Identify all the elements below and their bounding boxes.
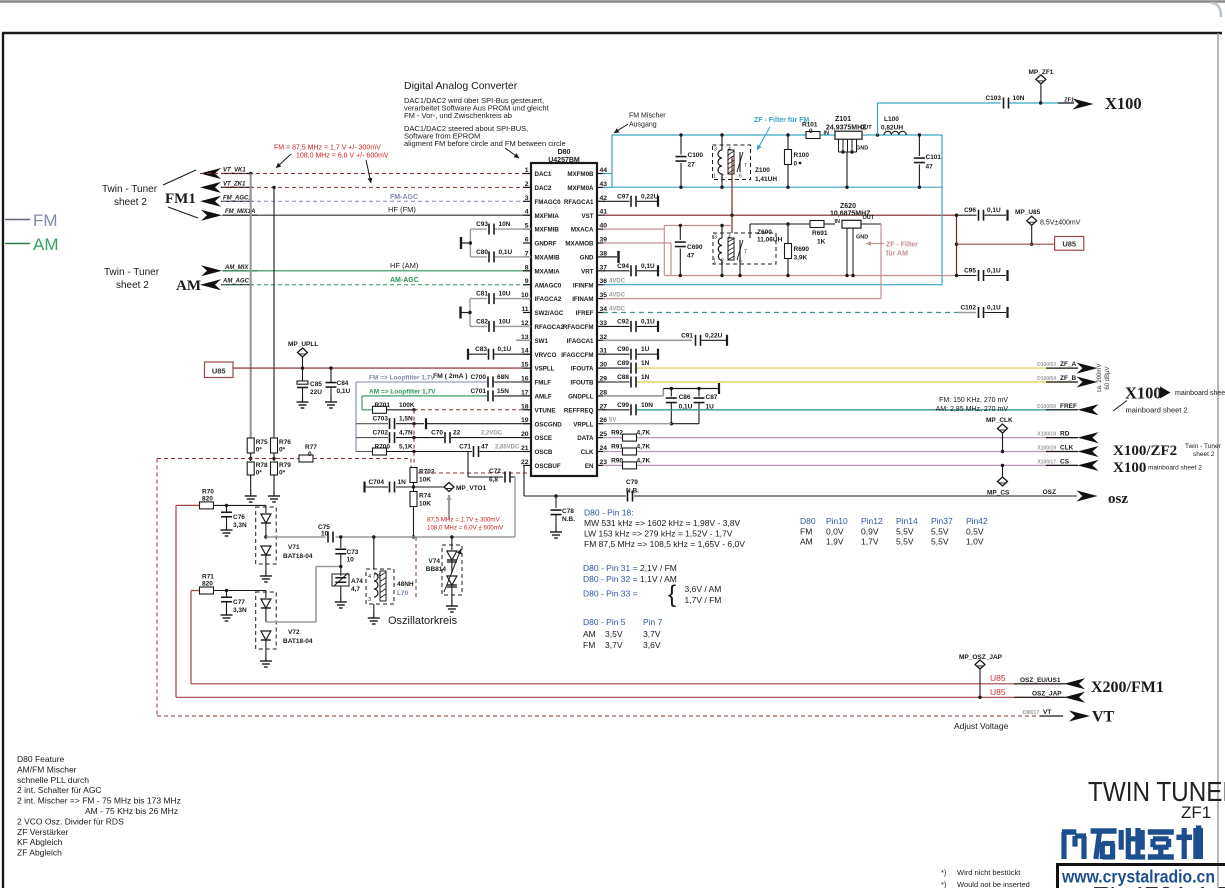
svg-text:ZF Abgleich: ZF Abgleich bbox=[17, 848, 62, 858]
svg-text:1N: 1N bbox=[641, 360, 650, 367]
svg-text:R70: R70 bbox=[202, 489, 214, 496]
svg-text:C690: C690 bbox=[687, 244, 703, 251]
svg-text:R78: R78 bbox=[256, 462, 268, 469]
svg-text:0,1U: 0,1U bbox=[641, 318, 655, 325]
svg-text:4VDC: 4VDC bbox=[609, 293, 626, 299]
svg-text:100K: 100K bbox=[399, 402, 415, 409]
svg-text:18: 18 bbox=[521, 403, 529, 410]
svg-text:C84: C84 bbox=[337, 380, 349, 387]
svg-text:R690: R690 bbox=[794, 246, 810, 253]
svg-text:0,1U: 0,1U bbox=[987, 305, 1001, 312]
svg-text:EN: EN bbox=[585, 463, 594, 470]
svg-text:HF (AM): HF (AM) bbox=[390, 261, 419, 270]
svg-text:8,5V±400mV: 8,5V±400mV bbox=[1040, 220, 1081, 227]
svg-text:2 int. Schalter für AGC: 2 int. Schalter für AGC bbox=[17, 785, 102, 795]
svg-text:C95: C95 bbox=[964, 268, 976, 275]
svg-text:15N: 15N bbox=[497, 388, 509, 395]
svg-text:Twin - Tuner: Twin - Tuner bbox=[104, 267, 160, 278]
svg-text:mainboard sheet 2: mainboard sheet 2 bbox=[1175, 390, 1225, 397]
svg-text:GNDPLL: GNDPLL bbox=[568, 394, 594, 401]
svg-text:AM: AM bbox=[583, 629, 596, 639]
svg-text:C70: C70 bbox=[431, 430, 443, 437]
svg-text:SW1: SW1 bbox=[535, 338, 549, 345]
svg-text:0: 0 bbox=[809, 128, 813, 135]
svg-text:C94: C94 bbox=[617, 263, 629, 270]
svg-text:10K: 10K bbox=[419, 501, 431, 508]
svg-text:OSCGND: OSCGND bbox=[535, 421, 563, 428]
svg-text:3,6V / AM: 3,6V / AM bbox=[685, 584, 722, 594]
svg-text:OUT: OUT bbox=[860, 125, 872, 131]
svg-text:FM - Vor-, und Zwischenkreis a: FM - Vor-, und Zwischenkreis ab bbox=[404, 111, 512, 120]
svg-text:MP_UPLL: MP_UPLL bbox=[288, 341, 318, 348]
svg-text:*): *) bbox=[941, 868, 947, 877]
svg-text:C83: C83 bbox=[475, 346, 487, 353]
svg-text:3,6V: 3,6V bbox=[643, 640, 661, 650]
svg-text:BAT18-04: BAT18-04 bbox=[283, 638, 313, 645]
svg-text:AM-AGC: AM-AGC bbox=[390, 277, 419, 284]
svg-text:Twin - Tuner: Twin - Tuner bbox=[102, 184, 158, 195]
svg-text:aligment FM before circle and: aligment FM before circle and FM between… bbox=[404, 139, 566, 148]
svg-text:MW 531 kHz => 1602 kHz = 1,98V: MW 531 kHz => 1602 kHz = 1,98V - 3,8V bbox=[584, 518, 740, 528]
svg-text:IFOUTA: IFOUTA bbox=[571, 366, 594, 373]
svg-text:Ausgang: Ausgang bbox=[629, 122, 657, 129]
svg-text:X100: X100 bbox=[1113, 460, 1146, 476]
svg-text:FM = 87,5 MHz = 1,7 V +/- 300m: FM = 87,5 MHz = 1,7 V +/- 300mV bbox=[274, 145, 381, 152]
svg-text:10N: 10N bbox=[641, 402, 653, 409]
svg-text:BB814: BB814 bbox=[426, 566, 447, 573]
svg-text:Digital Analog Converter: Digital Analog Converter bbox=[404, 80, 518, 92]
svg-text:X100/18: X100/18 bbox=[1037, 432, 1056, 438]
svg-text:L70: L70 bbox=[397, 590, 409, 597]
svg-text:C89: C89 bbox=[617, 360, 629, 367]
svg-text:FM: FM bbox=[33, 211, 58, 230]
svg-text:2: 2 bbox=[721, 174, 724, 180]
svg-text:MP_U85: MP_U85 bbox=[1015, 209, 1041, 216]
svg-text:IFREF: IFREF bbox=[576, 310, 594, 317]
svg-text:für AM: für AM bbox=[886, 251, 908, 258]
svg-text:10U: 10U bbox=[499, 291, 511, 298]
svg-text:Z620: Z620 bbox=[840, 203, 856, 210]
svg-text:Pin42: Pin42 bbox=[966, 516, 988, 526]
svg-text:5,5V: 5,5V bbox=[931, 537, 949, 547]
svg-text:0,0V: 0,0V bbox=[826, 527, 844, 537]
svg-text:D80: D80 bbox=[800, 516, 816, 526]
svg-text:{: { bbox=[668, 581, 676, 608]
svg-text:7: 7 bbox=[744, 249, 747, 255]
svg-text:3: 3 bbox=[714, 147, 717, 153]
svg-text:mainboard sheet 2: mainboard sheet 2 bbox=[1148, 465, 1202, 472]
svg-text:8: 8 bbox=[525, 264, 529, 271]
svg-text:D80 - Pin 31 =: D80 - Pin 31 = bbox=[583, 563, 638, 573]
svg-text:C73: C73 bbox=[347, 549, 359, 556]
svg-text:VT_ZK1: VT_ZK1 bbox=[223, 181, 246, 187]
svg-text:AM: 2,85 MHz, 270 mV: AM: 2,85 MHz, 270 mV bbox=[936, 406, 1009, 413]
svg-text:GNDRF: GNDRF bbox=[535, 241, 557, 248]
svg-text:60 dBµV: 60 dBµV bbox=[1105, 366, 1111, 389]
svg-text:Pin12: Pin12 bbox=[861, 516, 883, 526]
svg-text:4VDC: 4VDC bbox=[609, 279, 626, 285]
svg-text:U85: U85 bbox=[1062, 240, 1076, 249]
svg-text:1,41UH: 1,41UH bbox=[755, 176, 777, 183]
svg-text:Z101: Z101 bbox=[835, 116, 851, 123]
svg-text:5,5V: 5,5V bbox=[896, 527, 914, 537]
svg-text:VRT: VRT bbox=[581, 268, 594, 275]
svg-text:R76: R76 bbox=[279, 439, 291, 446]
svg-text:108,0 MHz = 6,0V ± 600mV: 108,0 MHz = 6,0V ± 600mV bbox=[427, 525, 504, 532]
svg-text:FM: FM bbox=[583, 640, 595, 650]
svg-text:C80: C80 bbox=[476, 249, 488, 256]
svg-text:ca. 200mV: ca. 200mV bbox=[1097, 364, 1103, 393]
svg-text:C91: C91 bbox=[681, 332, 693, 339]
svg-text:OSZ_EU/US1: OSZ_EU/US1 bbox=[1020, 677, 1061, 684]
svg-text:AM => Loopfilter 1,7V: AM => Loopfilter 1,7V bbox=[369, 388, 436, 395]
svg-text:1,7V / FM: 1,7V / FM bbox=[685, 595, 722, 605]
svg-text:C704: C704 bbox=[368, 479, 384, 486]
svg-text:0*: 0* bbox=[279, 447, 286, 454]
svg-text:3,7V: 3,7V bbox=[605, 640, 623, 650]
svg-text:1N: 1N bbox=[641, 374, 650, 381]
svg-text:C93: C93 bbox=[476, 221, 488, 228]
svg-text:0,1U: 0,1U bbox=[337, 388, 351, 395]
svg-text:R71: R71 bbox=[202, 574, 214, 581]
svg-text:FM: FM bbox=[800, 527, 812, 537]
svg-text:0*: 0* bbox=[279, 470, 286, 477]
svg-text:MXFM0B: MXFM0B bbox=[567, 171, 594, 178]
svg-text:X200/FM1: X200/FM1 bbox=[1091, 679, 1164, 696]
svg-text:3: 3 bbox=[525, 195, 529, 202]
svg-text:11: 11 bbox=[521, 306, 528, 313]
svg-text:IFAGCA1: IFAGCA1 bbox=[567, 338, 594, 345]
svg-text:Z100: Z100 bbox=[755, 167, 770, 174]
svg-text:C86: C86 bbox=[679, 394, 691, 401]
svg-text:MXFMIA: MXFMIA bbox=[535, 213, 560, 220]
svg-text:11,06UH: 11,06UH bbox=[757, 237, 783, 244]
svg-text:C76: C76 bbox=[233, 514, 245, 521]
svg-text:D100/54: D100/54 bbox=[1037, 376, 1056, 382]
svg-text:C82: C82 bbox=[476, 318, 488, 325]
svg-text:27: 27 bbox=[688, 162, 696, 169]
svg-text:820: 820 bbox=[202, 496, 213, 503]
svg-text:C101: C101 bbox=[926, 154, 942, 161]
svg-text:D80 - Pin 32 =: D80 - Pin 32 = bbox=[583, 574, 638, 584]
svg-text:DATA: DATA bbox=[577, 435, 594, 442]
svg-text:1,9V: 1,9V bbox=[826, 537, 844, 547]
svg-text:A74: A74 bbox=[351, 578, 363, 585]
svg-text:C90: C90 bbox=[617, 346, 629, 353]
svg-text:RFAGCA2: RFAGCA2 bbox=[535, 324, 565, 331]
svg-text:4,7K: 4,7K bbox=[637, 444, 651, 451]
svg-text:6: 6 bbox=[525, 237, 529, 244]
svg-text:CLK: CLK bbox=[1060, 445, 1074, 452]
svg-text:mainboard sheet 2: mainboard sheet 2 bbox=[1126, 406, 1188, 415]
svg-text:10U: 10U bbox=[499, 318, 511, 325]
svg-text:820: 820 bbox=[202, 581, 213, 588]
svg-text:RFAGCA1: RFAGCA1 bbox=[564, 199, 594, 206]
svg-text:OSZ: OSZ bbox=[1043, 489, 1056, 496]
svg-text:VSPLL: VSPLL bbox=[535, 366, 555, 373]
svg-text:7: 7 bbox=[744, 163, 747, 169]
svg-text:C700: C700 bbox=[470, 374, 486, 381]
svg-text:C97: C97 bbox=[617, 193, 629, 200]
svg-text:1,0V: 1,0V bbox=[966, 537, 984, 547]
svg-text:ZF_B: ZF_B bbox=[1060, 375, 1077, 382]
svg-text:9: 9 bbox=[525, 278, 529, 285]
svg-text:5,5V: 5,5V bbox=[931, 527, 949, 537]
svg-text:MXAMIB: MXAMIB bbox=[535, 255, 561, 262]
svg-text:GND: GND bbox=[856, 146, 868, 152]
svg-text:GND: GND bbox=[580, 255, 594, 262]
svg-text:2,1V / FM: 2,1V / FM bbox=[640, 563, 677, 573]
svg-text:21: 21 bbox=[521, 445, 529, 452]
svg-text:R77: R77 bbox=[305, 444, 317, 451]
svg-text:15: 15 bbox=[521, 362, 529, 369]
svg-text:0*: 0* bbox=[256, 470, 263, 477]
svg-text:C79: C79 bbox=[626, 479, 638, 486]
svg-text:OSCBUF: OSCBUF bbox=[535, 463, 561, 470]
svg-text:10N: 10N bbox=[1013, 95, 1025, 102]
svg-text:HF (FM): HF (FM) bbox=[388, 205, 416, 214]
svg-text:R90: R90 bbox=[611, 457, 623, 464]
svg-text:VRPLL: VRPLL bbox=[573, 421, 594, 428]
svg-text:10: 10 bbox=[321, 531, 329, 538]
svg-text:U85: U85 bbox=[990, 687, 1006, 697]
svg-text:22: 22 bbox=[453, 430, 461, 437]
svg-text:0,1U: 0,1U bbox=[499, 249, 513, 256]
svg-text:MXFM0A: MXFM0A bbox=[567, 185, 594, 192]
svg-text:Would not be inserted: Would not be inserted bbox=[957, 880, 1030, 888]
svg-text:RFAGCFM: RFAGCFM bbox=[563, 324, 594, 331]
svg-text:C71: C71 bbox=[459, 444, 471, 451]
svg-text:3,3N: 3,3N bbox=[233, 607, 247, 614]
svg-text:22U: 22U bbox=[310, 389, 322, 396]
svg-text:2 int. Mischer => FM - 75 MHz: 2 int. Mischer => FM - 75 MHz bis 173 MH… bbox=[17, 796, 181, 806]
svg-text:Pin14: Pin14 bbox=[896, 516, 918, 526]
svg-text:OUT: OUT bbox=[863, 215, 875, 221]
svg-text:0,1U: 0,1U bbox=[987, 207, 1001, 214]
svg-text:6,8: 6,8 bbox=[489, 477, 498, 484]
svg-text:1: 1 bbox=[713, 174, 716, 180]
svg-text:20: 20 bbox=[521, 431, 529, 438]
svg-text:1N: 1N bbox=[398, 479, 407, 486]
svg-text:47: 47 bbox=[687, 253, 695, 260]
svg-text:0: 0 bbox=[794, 161, 798, 168]
svg-text:R74: R74 bbox=[419, 493, 431, 500]
svg-text:Pin 7: Pin 7 bbox=[643, 617, 663, 627]
svg-text:osz: osz bbox=[1108, 491, 1128, 507]
svg-text:U4257BM: U4257BM bbox=[548, 157, 580, 164]
svg-text:1,5N: 1,5N bbox=[399, 416, 413, 423]
svg-text:X100/ZF2: X100/ZF2 bbox=[1113, 443, 1177, 459]
svg-text:X100: X100 bbox=[1105, 94, 1142, 113]
svg-text:C702: C702 bbox=[372, 430, 388, 437]
svg-text:5,1K: 5,1K bbox=[399, 444, 413, 451]
svg-text:DAC2: DAC2 bbox=[535, 185, 552, 192]
svg-text:VT: VT bbox=[1092, 709, 1115, 726]
svg-text:D90/17: D90/17 bbox=[1023, 710, 1039, 716]
svg-text:MXAMIA: MXAMIA bbox=[535, 268, 561, 275]
svg-text:ZF - Filter: ZF - Filter bbox=[886, 242, 918, 249]
svg-text:C96: C96 bbox=[964, 207, 976, 214]
svg-text:FM-AGC: FM-AGC bbox=[390, 194, 418, 201]
svg-text:R75: R75 bbox=[256, 439, 268, 446]
svg-text:R92: R92 bbox=[611, 430, 623, 437]
svg-text:VST: VST bbox=[581, 213, 593, 220]
svg-text:sheet 2: sheet 2 bbox=[114, 197, 147, 208]
svg-text:5V: 5V bbox=[609, 418, 616, 424]
svg-text:0,82UH: 0,82UH bbox=[881, 125, 903, 132]
svg-text:0,1U: 0,1U bbox=[498, 346, 512, 353]
svg-text:D80 - Pin 18:: D80 - Pin 18: bbox=[584, 508, 634, 518]
svg-text:DAC1: DAC1 bbox=[535, 171, 552, 178]
svg-text:R702: R702 bbox=[419, 469, 435, 476]
svg-text:V74: V74 bbox=[428, 558, 440, 565]
svg-text:D80: D80 bbox=[558, 149, 571, 156]
svg-text:FM: 150 KHz, 270 mV: FM: 150 KHz, 270 mV bbox=[939, 397, 1008, 404]
svg-text:0: 0 bbox=[308, 451, 312, 458]
svg-text:R100: R100 bbox=[794, 152, 810, 159]
svg-text:4: 4 bbox=[728, 147, 731, 153]
svg-text:AMLF: AMLF bbox=[535, 394, 552, 401]
svg-text:KF Abgleich: KF Abgleich bbox=[17, 837, 63, 847]
svg-text:C77: C77 bbox=[233, 599, 245, 606]
svg-text:V71: V71 bbox=[288, 544, 300, 551]
svg-text:AM: AM bbox=[33, 235, 59, 254]
svg-text:10: 10 bbox=[347, 557, 355, 564]
svg-text:U85: U85 bbox=[990, 673, 1006, 683]
svg-text:C701: C701 bbox=[470, 388, 486, 395]
svg-text:U85: U85 bbox=[212, 366, 226, 375]
svg-text:D80 - Pin 5: D80 - Pin 5 bbox=[583, 617, 626, 627]
svg-text:C102: C102 bbox=[960, 305, 976, 312]
svg-text:0,1U: 0,1U bbox=[641, 263, 655, 270]
svg-text:R701: R701 bbox=[374, 402, 390, 409]
svg-text:3,5V: 3,5V bbox=[605, 629, 623, 639]
svg-text:X100/17: X100/17 bbox=[1037, 459, 1056, 465]
svg-text:4: 4 bbox=[728, 235, 731, 241]
svg-text:3,9K: 3,9K bbox=[794, 255, 808, 262]
svg-text:C99: C99 bbox=[617, 402, 629, 409]
svg-text:MXAMOB: MXAMOB bbox=[565, 241, 594, 248]
svg-text:GND: GND bbox=[856, 235, 868, 241]
svg-text:10K: 10K bbox=[419, 477, 431, 484]
svg-text:C78: C78 bbox=[562, 508, 574, 515]
svg-text:RD: RD bbox=[1060, 431, 1070, 438]
svg-text:CLK: CLK bbox=[581, 449, 594, 456]
svg-text:3,7V: 3,7V bbox=[643, 629, 661, 639]
svg-text:FM => Loopfilter 1,7V: FM => Loopfilter 1,7V bbox=[369, 375, 435, 382]
svg-text:R700: R700 bbox=[374, 444, 390, 451]
svg-text:0,1U: 0,1U bbox=[987, 268, 1001, 275]
svg-text:R91: R91 bbox=[611, 444, 623, 451]
svg-text:Oszillatorkreis: Oszillatorkreis bbox=[388, 615, 458, 627]
svg-text:Pin10: Pin10 bbox=[826, 516, 848, 526]
svg-text:L100: L100 bbox=[884, 116, 899, 123]
svg-text:48NH: 48NH bbox=[397, 581, 414, 588]
svg-text:2: 2 bbox=[525, 181, 529, 188]
svg-text:10N: 10N bbox=[499, 221, 511, 228]
svg-text:EL 4791 1 50: EL 4791 1 50 bbox=[1092, 881, 1225, 888]
svg-text:2 VCO Osz. Divider für RDS: 2 VCO Osz. Divider für RDS bbox=[17, 816, 124, 826]
svg-text:5,5V: 5,5V bbox=[896, 537, 914, 547]
svg-text:V72: V72 bbox=[288, 629, 300, 636]
svg-text:X100/19: X100/19 bbox=[1037, 446, 1056, 452]
svg-text:IFAGCCFM: IFAGCCFM bbox=[561, 352, 593, 359]
svg-text:4 7 8: 4 7 8 bbox=[368, 574, 380, 580]
svg-text:C72: C72 bbox=[489, 468, 501, 475]
svg-text:FMAGC0: FMAGC0 bbox=[535, 199, 562, 206]
svg-text:1: 1 bbox=[525, 167, 529, 174]
svg-text:4,7K: 4,7K bbox=[637, 430, 651, 437]
svg-text:C703: C703 bbox=[372, 416, 388, 423]
svg-text:2,85VDC: 2,85VDC bbox=[495, 445, 520, 451]
svg-text:108,0 MHz = 6,0 V +/- 600mV: 108,0 MHz = 6,0 V +/- 600mV bbox=[296, 153, 389, 160]
svg-text:C100: C100 bbox=[688, 152, 704, 159]
svg-text:0,9V: 0,9V bbox=[861, 527, 879, 537]
svg-text:FM 87,5 MHz => 108,5 kHz = 1,6: FM 87,5 MHz => 108,5 kHz = 1,65V - 6,0V bbox=[584, 539, 745, 549]
svg-text:19: 19 bbox=[521, 417, 529, 424]
svg-text:D100/50: D100/50 bbox=[1037, 404, 1056, 410]
svg-text:X100: X100 bbox=[1125, 384, 1162, 403]
svg-text:C81: C81 bbox=[476, 291, 488, 298]
svg-text:4: 4 bbox=[525, 209, 529, 216]
svg-text:LW 153 kHz => 279 kHz = 1,52V: LW 153 kHz => 279 kHz = 1,52V - 1,7V bbox=[584, 529, 733, 539]
svg-text:3: 3 bbox=[368, 597, 371, 603]
svg-text:BAT18-04: BAT18-04 bbox=[283, 553, 313, 560]
svg-text:AM - 75 KHz bis 26 MHz: AM - 75 KHz bis 26 MHz bbox=[85, 806, 178, 816]
svg-text:17: 17 bbox=[521, 389, 529, 396]
svg-text:R691: R691 bbox=[812, 230, 828, 237]
svg-text:C87: C87 bbox=[706, 394, 718, 401]
svg-text:Twin - Tuner: Twin - Tuner bbox=[1185, 443, 1222, 450]
svg-text:FMLF: FMLF bbox=[535, 380, 552, 387]
svg-text:AMAGC0: AMAGC0 bbox=[535, 282, 562, 289]
svg-text:AM: AM bbox=[176, 278, 201, 294]
svg-text:0,5V: 0,5V bbox=[966, 527, 984, 537]
svg-text:FM Mischer: FM Mischer bbox=[629, 113, 666, 120]
svg-text:VRVCO: VRVCO bbox=[535, 352, 557, 359]
svg-text:*): *) bbox=[941, 880, 947, 888]
svg-text:3: 3 bbox=[714, 235, 717, 241]
svg-text:AM_AGC: AM_AGC bbox=[222, 279, 250, 285]
svg-text:16: 16 bbox=[521, 376, 529, 383]
svg-text:Adjust Voltage: Adjust Voltage bbox=[954, 721, 1009, 731]
svg-text:47: 47 bbox=[926, 164, 934, 171]
svg-text:D80 Feature: D80 Feature bbox=[17, 754, 65, 764]
svg-text:6: 6 bbox=[739, 174, 742, 180]
svg-text:MXACA: MXACA bbox=[571, 227, 594, 234]
svg-text:IFINFM: IFINFM bbox=[573, 282, 594, 289]
svg-text:Wird nicht bestückt: Wird nicht bestückt bbox=[957, 868, 1021, 877]
svg-text:OSZ_JAP: OSZ_JAP bbox=[1032, 691, 1062, 698]
svg-text:D80 - Pin 33 =: D80 - Pin 33 = bbox=[583, 589, 638, 599]
svg-text:CS: CS bbox=[1060, 458, 1070, 465]
svg-text:FM_AGC1: FM_AGC1 bbox=[223, 195, 252, 201]
svg-text:4,7K: 4,7K bbox=[637, 457, 651, 464]
svg-text:AM_MIX: AM_MIX bbox=[224, 265, 249, 271]
svg-text:47: 47 bbox=[481, 444, 489, 451]
svg-text:87,5 MHz = 1,7V ± 300mV: 87,5 MHz = 1,7V ± 300mV bbox=[427, 517, 501, 524]
svg-text:6: 6 bbox=[739, 259, 742, 265]
svg-text:22: 22 bbox=[521, 459, 529, 466]
svg-text:IFOUTB: IFOUTB bbox=[570, 380, 594, 387]
svg-text:IN: IN bbox=[835, 219, 841, 225]
svg-text:D100/53: D100/53 bbox=[1037, 362, 1056, 368]
svg-text:ZF Verstärker: ZF Verstärker bbox=[17, 827, 69, 837]
svg-text:1: 1 bbox=[713, 259, 716, 265]
svg-text:2,2VDC: 2,2VDC bbox=[481, 431, 503, 437]
svg-text:68N: 68N bbox=[497, 374, 509, 381]
svg-text:MP_CLK: MP_CLK bbox=[986, 417, 1013, 424]
